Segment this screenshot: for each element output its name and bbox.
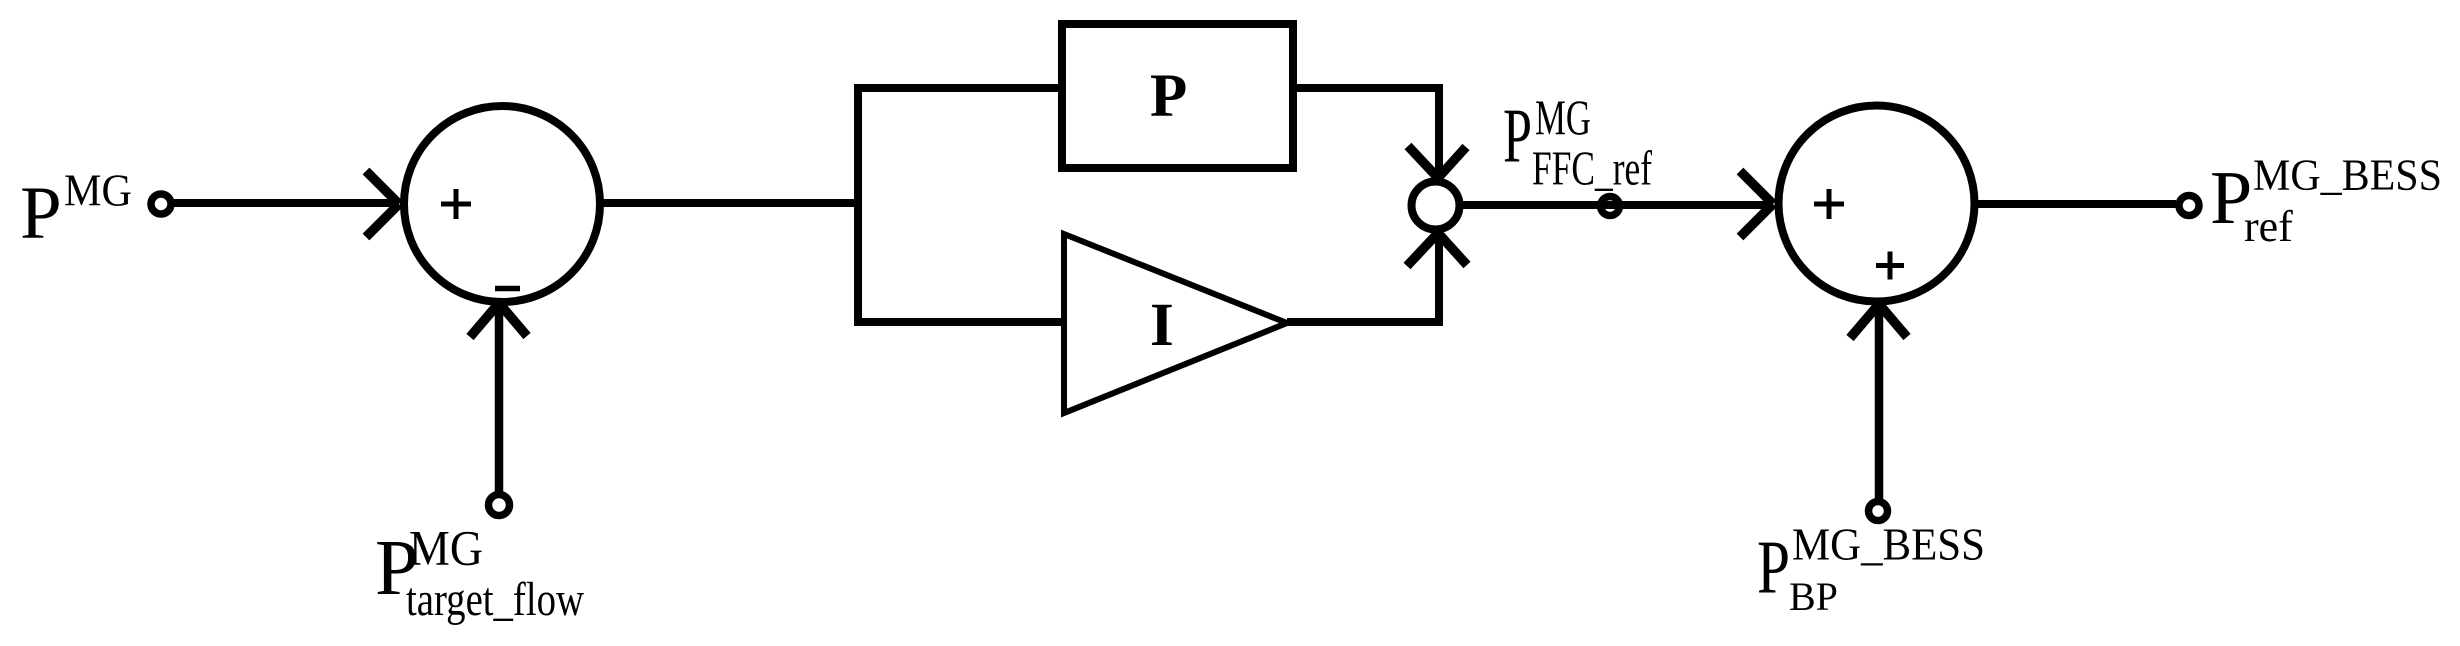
wire P block to X node <box>1293 88 1439 176</box>
svg-text:MG: MG <box>64 166 132 216</box>
arrowhead into S2 left <box>1740 171 1773 237</box>
arrowhead into S2 bottom <box>1850 304 1907 338</box>
summing junction S1 <box>404 106 600 302</box>
block I (integrator triangle) <box>1064 234 1287 413</box>
node PFFC_ref label <box>1503 89 1652 196</box>
wire branch to P block <box>854 84 1060 92</box>
arrowhead into S1 bottom <box>470 303 527 337</box>
wire I block to X node <box>1287 235 1439 322</box>
svg-text:P: P <box>20 172 62 255</box>
block P (proportional) <box>1062 24 1293 168</box>
S1 minus sign <box>495 286 520 292</box>
terminal BP <box>1869 502 1888 521</box>
wire S2 output <box>1972 200 2176 208</box>
wire target_flow input (vertical) <box>495 303 504 494</box>
node Ptarget_flow label <box>375 520 584 627</box>
node Pref output label <box>2210 151 2442 252</box>
svg-text:P: P <box>1503 93 1532 179</box>
svg-text:ref: ref <box>2244 202 2293 251</box>
node PMG input label <box>20 166 132 256</box>
terminal PMG input <box>151 194 171 214</box>
svg-text:target_flow: target_flow <box>406 573 584 626</box>
svg-text:BP: BP <box>1789 574 1838 619</box>
arrowhead into X node bottom <box>1407 233 1467 266</box>
wire BP input (vertical) <box>1875 304 1884 500</box>
wire branch vertical <box>854 84 862 326</box>
S1 plus sign <box>441 189 471 219</box>
terminal Pref output <box>2179 196 2199 216</box>
arrowhead into X node top <box>1408 146 1466 178</box>
svg-text:MG: MG <box>1535 89 1591 145</box>
svg-text:MG_BESS: MG_BESS <box>2253 151 2442 200</box>
S2 plus sign left <box>1814 189 1844 219</box>
terminal FFC_ref <box>1601 197 1620 216</box>
summing junction S2 <box>1779 106 1975 302</box>
terminal target_flow <box>489 495 510 516</box>
node PBP label <box>1757 519 1985 620</box>
wire branch to I block <box>854 318 1062 326</box>
svg-text:P: P <box>1150 63 1187 130</box>
node X (merge junction) <box>1412 182 1460 230</box>
wire S1 output to branch point <box>598 199 862 207</box>
svg-text:P: P <box>1757 526 1790 610</box>
svg-text:MG_BESS: MG_BESS <box>1792 519 1985 570</box>
svg-text:FFC_ref: FFC_ref <box>1532 141 1652 196</box>
arrowhead into S1 <box>366 171 399 237</box>
svg-text:MG: MG <box>409 520 483 576</box>
wire PMG to summer S1 <box>174 199 398 207</box>
S2 plus sign bottom <box>1876 252 1904 280</box>
wire X node to summer S2 <box>1463 201 1769 209</box>
svg-text:I: I <box>1150 292 1174 359</box>
